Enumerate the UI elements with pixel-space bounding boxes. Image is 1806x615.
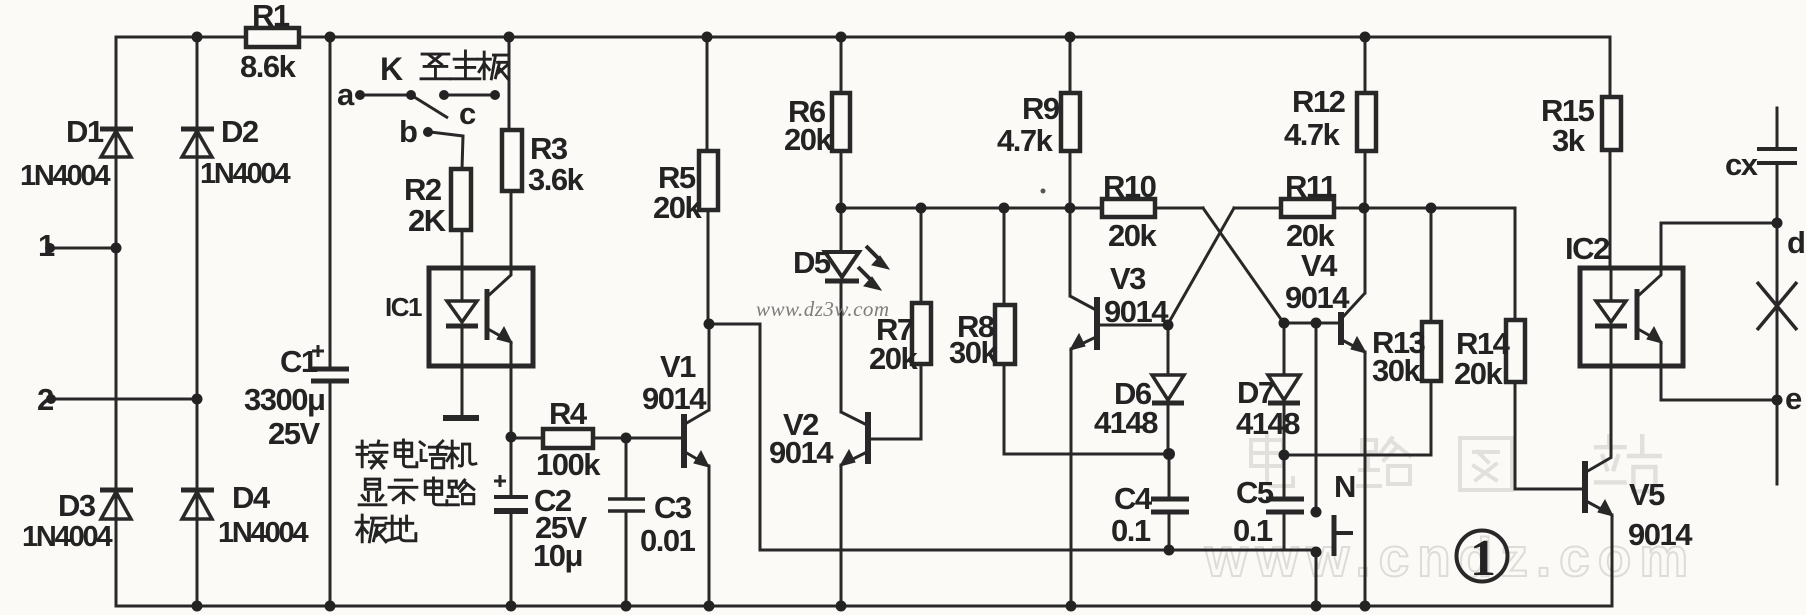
svg-text:R1: R1 [252,0,290,33]
svg-text:1N4004: 1N4004 [200,158,290,190]
svg-text:9014: 9014 [1285,280,1350,315]
svg-text:9014: 9014 [1628,517,1693,552]
svg-text:C1: C1 [280,344,318,379]
svg-text:R10: R10 [1103,169,1156,204]
svg-text:R2: R2 [404,172,441,207]
svg-text:25V: 25V [268,416,320,451]
svg-text:R4: R4 [549,396,588,431]
svg-text:8.6k: 8.6k [240,49,297,84]
svg-text:V1: V1 [660,349,696,384]
svg-text:D7: D7 [1237,375,1274,410]
svg-text:V3: V3 [1110,261,1146,296]
svg-text:0.01: 0.01 [640,523,696,558]
svg-text:cx: cx [1725,147,1759,182]
svg-text:20k: 20k [784,122,833,157]
svg-text:C3: C3 [654,490,692,525]
svg-text:9014: 9014 [642,381,707,416]
svg-text:R12: R12 [1292,84,1345,119]
svg-text:0.1: 0.1 [1111,513,1151,548]
svg-text:3.6k: 3.6k [528,162,585,197]
svg-text:www.cndz.com: www.cndz.com [1204,526,1696,588]
svg-text:2K: 2K [408,203,447,238]
svg-text:K: K [380,51,403,87]
svg-text:D4: D4 [232,480,271,515]
svg-text:a: a [337,77,355,112]
svg-text:IC2: IC2 [1565,231,1609,266]
svg-text:V5: V5 [1629,477,1665,512]
svg-text:1N4004: 1N4004 [20,160,110,192]
svg-text:4148: 4148 [1094,405,1158,440]
svg-text:20k: 20k [653,190,702,225]
svg-text:100k: 100k [536,447,601,482]
svg-text:10μ: 10μ [533,538,582,573]
svg-text:d: d [1787,225,1804,260]
svg-text:C5: C5 [1236,475,1274,510]
svg-text:4.7k: 4.7k [997,123,1054,158]
svg-text:3300μ: 3300μ [244,382,324,417]
svg-text:1: 1 [38,228,55,263]
svg-text:R9: R9 [1022,91,1060,126]
svg-text:D2: D2 [221,114,258,149]
svg-text:20k: 20k [1108,218,1157,253]
svg-text:D3: D3 [58,488,96,523]
svg-text:20k: 20k [869,341,918,376]
svg-text:V4: V4 [1301,248,1338,283]
svg-text:N: N [1334,469,1355,504]
svg-text:D1: D1 [66,114,104,149]
svg-text:R3: R3 [530,131,568,166]
svg-text:1N4004: 1N4004 [218,517,308,549]
svg-text:c: c [459,96,476,131]
svg-text:IC1: IC1 [385,292,422,322]
svg-text:30k: 30k [949,335,998,370]
svg-text:3k: 3k [1552,123,1586,158]
svg-text:4.7k: 4.7k [1284,117,1341,152]
svg-text:2: 2 [37,382,53,417]
svg-text:D5: D5 [793,245,831,280]
svg-text:R11: R11 [1285,169,1337,204]
svg-text:4148: 4148 [1236,406,1300,441]
svg-text:1: 1 [1470,530,1496,587]
svg-text:www.dz3w.com: www.dz3w.com [756,297,890,321]
svg-text:0.1: 0.1 [1233,513,1273,548]
svg-text:e: e [1785,381,1802,416]
svg-text:b: b [399,114,417,149]
svg-text:9014: 9014 [769,435,834,470]
svg-text:1N4004: 1N4004 [22,521,112,553]
svg-text:C4: C4 [1114,481,1153,516]
svg-text:9014: 9014 [1104,294,1169,329]
svg-text:30k: 30k [1372,353,1421,388]
svg-text:20k: 20k [1454,356,1503,391]
